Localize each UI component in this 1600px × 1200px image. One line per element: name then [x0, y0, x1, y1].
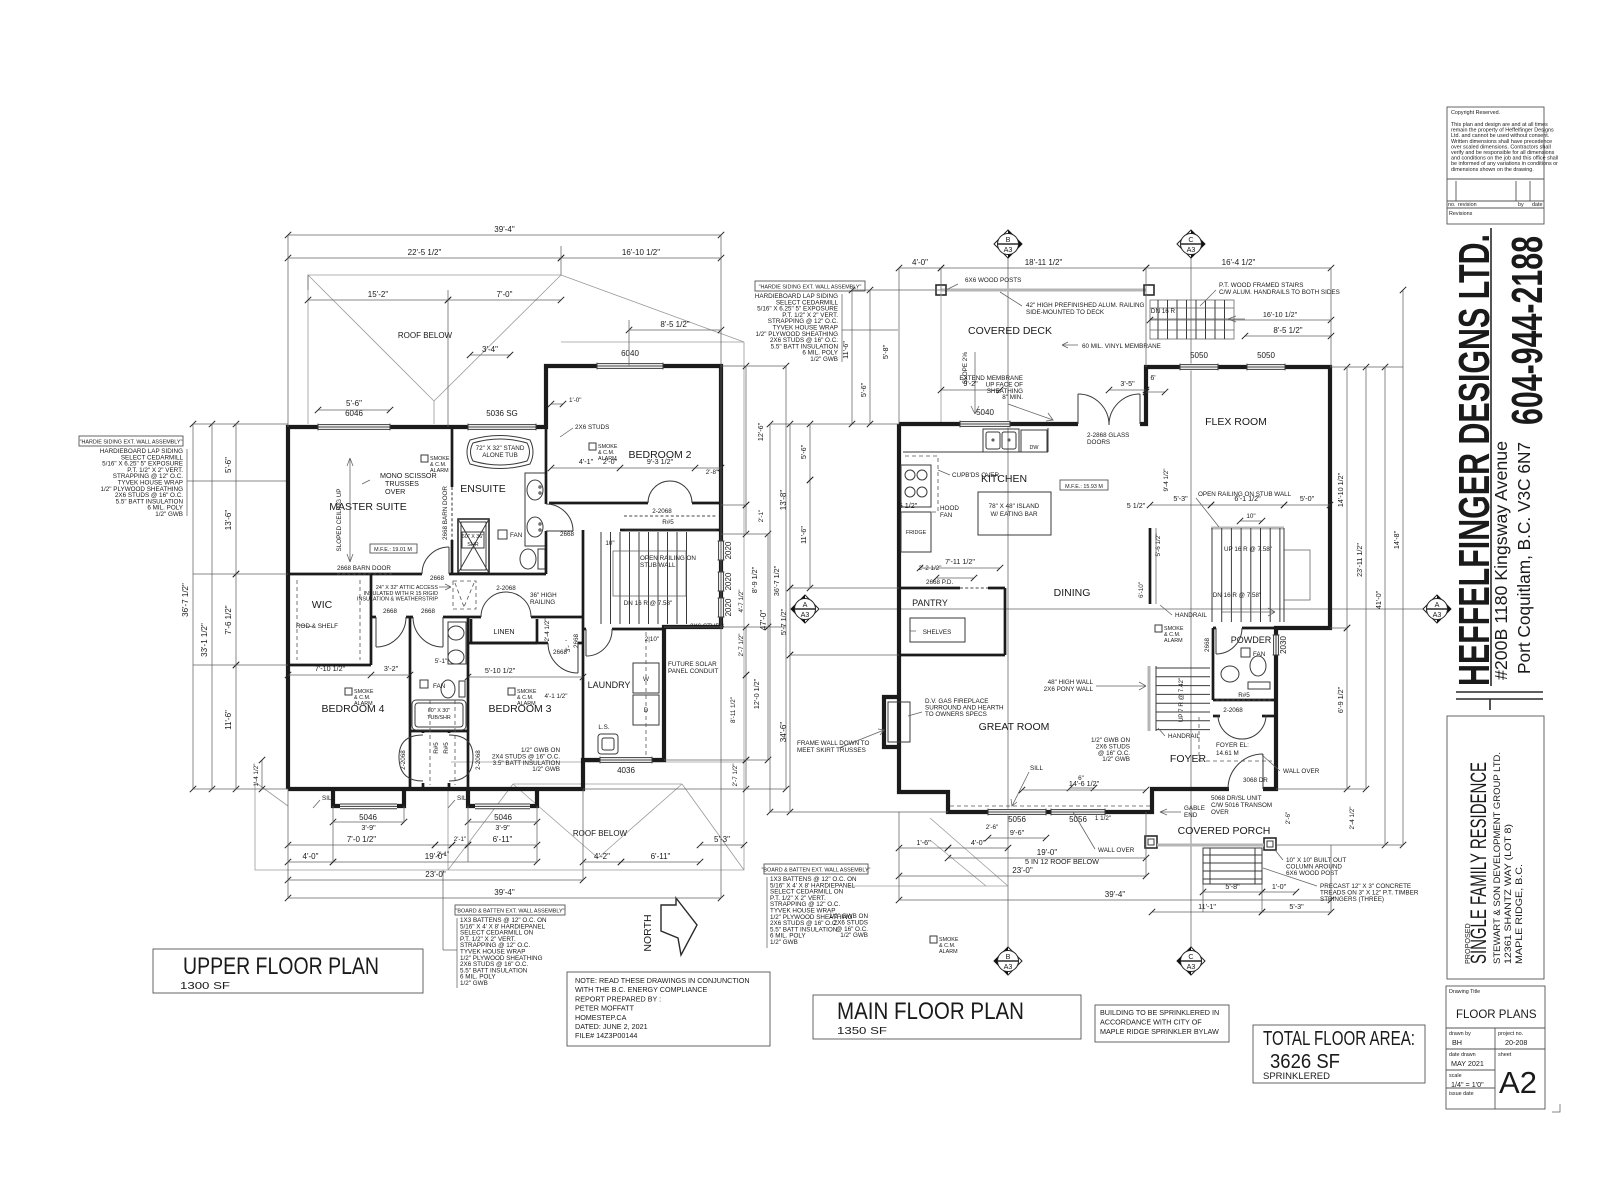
svg-text:5046: 5046 [359, 813, 377, 822]
svg-text:5'-6": 5'-6" [859, 382, 868, 397]
svg-text:LAUNDRY: LAUNDRY [588, 680, 631, 690]
svg-text:LINEN: LINEN [493, 627, 514, 636]
svg-text:6'-9 1/2": 6'-9 1/2" [1336, 686, 1345, 713]
svg-text:#200B 1180 Kingsway Avenue: #200B 1180 Kingsway Avenue [1491, 441, 1511, 680]
svg-text:C/W ALUM. HANDRAILS TO BOTH SI: C/W ALUM. HANDRAILS TO BOTH SIDES [1219, 289, 1340, 296]
svg-text:A3: A3 [1187, 962, 1196, 971]
svg-text:UP 7 R @ 7.42": UP 7 R @ 7.42" [1178, 678, 1185, 723]
svg-text:4'-0": 4'-0" [303, 852, 319, 861]
svg-text:A3: A3 [1187, 245, 1196, 254]
svg-text:1/2" GWB: 1/2" GWB [1102, 756, 1130, 763]
svg-text:2'-1": 2'-1" [758, 510, 765, 523]
svg-text:36'-7 1/2": 36'-7 1/2" [181, 583, 190, 617]
svg-text:39'-4": 39'-4" [1105, 890, 1126, 899]
svg-text:36" HIGH: 36" HIGH [530, 592, 557, 599]
svg-text:WALL OVER: WALL OVER [1098, 847, 1135, 854]
svg-text:FUTURE SOLAR: FUTURE SOLAR [668, 661, 717, 668]
svg-text:3'-4": 3'-4" [482, 345, 498, 354]
svg-text:M.F.E.: 15.93 M: M.F.E.: 15.93 M [1065, 484, 1103, 490]
svg-text:FAN: FAN [1253, 651, 1266, 658]
svg-text:OPEN RAILING ON: OPEN RAILING ON [640, 555, 696, 562]
upper plan: bottom dimension lines [333, 821, 404, 823]
svg-text:13'-6": 13'-6" [224, 510, 233, 531]
svg-text:7'-0": 7'-0" [497, 290, 513, 299]
svg-text:6'-11": 6'-11" [651, 852, 671, 861]
svg-text:2668: 2668 [573, 634, 580, 649]
svg-text:ACCORDANCE WITH CITY OF: ACCORDANCE WITH CITY OF [1100, 1018, 1202, 1027]
svg-text:CUPB'DS OVER: CUPB'DS OVER [952, 472, 999, 479]
svg-text:8'-5 1/2": 8'-5 1/2" [660, 320, 689, 329]
svg-text:2'-4 1/2": 2'-4 1/2" [1349, 806, 1356, 829]
svg-text:SILL: SILL [1030, 765, 1043, 772]
svg-text:2'-6": 2'-6" [1285, 812, 1292, 825]
svg-text:1/2" GWB: 1/2" GWB [810, 356, 838, 363]
upper plan: bedroom3 walls [468, 642, 583, 645]
svg-text:5'-3": 5'-3" [1173, 494, 1188, 503]
svg-text:6': 6' [1150, 373, 1156, 382]
svg-text:date drawn: date drawn [1449, 1052, 1476, 1058]
svg-text:DOORS: DOORS [1087, 439, 1110, 446]
svg-text:2020: 2020 [724, 598, 733, 616]
svg-text:18'-11 1/2": 18'-11 1/2" [1025, 258, 1063, 267]
svg-text:7'-0 1/2": 7'-0 1/2" [347, 835, 376, 844]
svg-text:HANDRAIL: HANDRAIL [1168, 733, 1200, 740]
svg-text:19'-0": 19'-0" [1037, 848, 1058, 857]
svg-text:6'-1 1/2": 6'-1 1/2" [1234, 494, 1261, 503]
svg-text:2-2068: 2-2068 [496, 585, 516, 592]
svg-text:issue date: issue date [1449, 1091, 1474, 1097]
svg-text:2'-4 1/2": 2'-4 1/2" [544, 618, 551, 641]
svg-text:MAIN FLOOR PLAN: MAIN FLOOR PLAN [837, 998, 1024, 1025]
main plan: windows [960, 421, 1010, 428]
svg-text:2668 P.D.: 2668 P.D. [926, 579, 953, 586]
svg-text:23'-0": 23'-0" [1012, 866, 1033, 875]
upper plan: stairs [600, 532, 602, 624]
svg-text:3'-2": 3'-2" [384, 664, 399, 673]
svg-text:16'-10 1/2": 16'-10 1/2" [622, 248, 660, 257]
svg-text:5068 DR/SL UNIT: 5068 DR/SL UNIT [1211, 795, 1262, 802]
svg-text:MAY 2021: MAY 2021 [1451, 1059, 1484, 1068]
svg-text:5'-6": 5'-6" [346, 399, 362, 408]
upper plan: top dimension lines [288, 234, 721, 236]
svg-text:4'-1": 4'-1" [579, 457, 594, 466]
svg-text:SHR: SHR [467, 542, 478, 548]
svg-text:5050: 5050 [1257, 351, 1275, 360]
svg-text:16'-10 1/2": 16'-10 1/2" [1263, 310, 1298, 319]
svg-text:3068 DR: 3068 DR [1243, 777, 1268, 784]
svg-text:DN 16 R @ 7.58": DN 16 R @ 7.58" [1213, 592, 1262, 599]
main plan: misc labels [930, 936, 937, 943]
main plan: stub wall and stairs up [1149, 528, 1152, 604]
svg-text:34'-6": 34'-6" [779, 722, 788, 743]
svg-text:36'-7 1/2": 36'-7 1/2" [772, 565, 781, 596]
svg-text:C: C [1188, 235, 1193, 244]
upper plan: attic access [453, 581, 476, 609]
note: board & batten wall assembly (below upper plan) [455, 905, 565, 915]
svg-text:60 MIL. VINYL MEMBRANE: 60 MIL. VINYL MEMBRANE [1082, 343, 1161, 350]
svg-text:dimensions shown on the drawin: dimensions shown on the drawing. [1451, 167, 1534, 173]
svg-text:by: by [1518, 202, 1524, 208]
svg-text:10": 10" [605, 540, 614, 547]
upper plan: bedroom3 interior dims [468, 676, 583, 678]
svg-text:5056: 5056 [1008, 815, 1026, 824]
svg-text:1/2" GWB: 1/2" GWB [840, 932, 868, 939]
svg-text:7'-11 1/2": 7'-11 1/2" [945, 557, 975, 566]
note: hardie siding wall assembly (upper plan left) [79, 436, 183, 446]
upper plan: linen closet [471, 642, 537, 645]
svg-text:WALL OVER: WALL OVER [1283, 768, 1320, 775]
svg-text:W/ EATING BAR: W/ EATING BAR [990, 511, 1038, 518]
svg-text:2'-6": 2'-6" [986, 824, 999, 831]
svg-text:SHELVES: SHELVES [923, 629, 952, 636]
svg-text:2-2068: 2-2068 [400, 750, 407, 770]
svg-text:6X6 WOOD POST: 6X6 WOOD POST [1286, 870, 1338, 877]
svg-text:4'-0": 4'-0" [971, 838, 986, 847]
svg-text:72" X 32" STAND: 72" X 32" STAND [476, 445, 525, 452]
title block: revisions table [1447, 178, 1544, 180]
main plan: exterior walls [899, 367, 1330, 789]
svg-text:TO OWNERS SPECS: TO OWNERS SPECS [925, 711, 987, 718]
svg-text:42" HIGH PREFINISHED ALUM. RAI: 42" HIGH PREFINISHED ALUM. RAILING [1026, 302, 1145, 309]
svg-text:14.61 M: 14.61 M [1216, 750, 1239, 757]
svg-text:Copyright Reserved.: Copyright Reserved. [1451, 110, 1500, 116]
svg-text:2668: 2668 [421, 608, 436, 615]
upper plan: bay window bump-outs [333, 789, 404, 806]
section marker C bottom [1177, 947, 1205, 975]
svg-text:5'-0": 5'-0" [1300, 494, 1315, 503]
svg-text:R#5: R#5 [443, 742, 450, 754]
svg-text:1'-0": 1'-0" [569, 397, 582, 404]
svg-text:C/W 5016 TRANSOM: C/W 5016 TRANSOM [1211, 802, 1272, 809]
svg-text:2020: 2020 [724, 572, 733, 590]
upper plan: laundry [583, 628, 664, 631]
svg-text:9'-3 1/2": 9'-3 1/2" [647, 457, 674, 466]
svg-text:DN 16 R: DN 16 R [1151, 308, 1176, 315]
main plan: interior small dims [1150, 504, 1211, 506]
main plan: right dimension lines [1346, 367, 1348, 628]
svg-text:ALARM: ALARM [354, 701, 373, 707]
svg-text:ROD & SHELF: ROD & SHELF [296, 623, 338, 630]
svg-text:UPPER FLOOR PLAN: UPPER FLOOR PLAN [183, 953, 379, 980]
svg-text:HANDRAIL: HANDRAIL [1175, 612, 1207, 619]
sheet corner mark [1552, 1104, 1560, 1112]
svg-text:DINING: DINING [1054, 587, 1091, 599]
upper plan: left dimension lines [192, 424, 194, 789]
svg-text:9'-2": 9'-2" [963, 379, 978, 388]
main plan: section line A-A [820, 608, 1430, 610]
svg-text:6X6 WOOD POSTS: 6X6 WOOD POSTS [965, 277, 1021, 284]
svg-text:2668: 2668 [1204, 638, 1211, 653]
main plan: section line C [1190, 254, 1192, 952]
svg-text:ROOF BELOW: ROOF BELOW [573, 829, 628, 838]
svg-text:8'-11 1/2": 8'-11 1/2" [730, 697, 737, 723]
upper plan: windows [318, 424, 390, 431]
section marker B top [994, 230, 1022, 258]
main plan: section line B [1007, 254, 1009, 952]
svg-text:ALARM: ALARM [1164, 638, 1183, 644]
svg-text:3'-9": 3'-9" [495, 823, 510, 832]
upper floor plan title box [153, 949, 423, 993]
svg-text:22'-5 1/2": 22'-5 1/2" [408, 248, 442, 257]
svg-text:4'-2": 4'-2" [594, 852, 610, 861]
svg-text:2-2868 GLASS: 2-2868 GLASS [1087, 432, 1129, 439]
svg-text:5'-10 1/2": 5'-10 1/2" [485, 666, 516, 675]
svg-text:SLOPED CEILING UP: SLOPED CEILING UP [336, 489, 343, 552]
svg-text:2'-0": 2'-0" [603, 457, 618, 466]
svg-text:2030: 2030 [1279, 636, 1288, 654]
svg-text:A3: A3 [801, 610, 810, 619]
svg-text:NOTE: READ THESE DRAWINGS IN: NOTE: READ THESE DRAWINGS IN CONJUNCTION [575, 976, 750, 985]
svg-text:5'-6 1/2": 5'-6 1/2" [1155, 533, 1162, 556]
svg-text:60" X 36": 60" X 36" [462, 534, 484, 540]
svg-text:DATED: JUNE 2, 2021: DATED: JUNE 2, 2021 [575, 1022, 648, 1031]
svg-text:COVERED PORCH: COVERED PORCH [1178, 825, 1271, 837]
main plan: roof below lines bottom-left [930, 818, 1008, 886]
svg-text:1/2" GWB: 1/2" GWB [460, 980, 488, 987]
upper plan: bedroom4 interior dims [288, 674, 410, 676]
svg-text:GABLE: GABLE [1184, 805, 1205, 812]
svg-text:FLEX ROOM: FLEX ROOM [1205, 416, 1267, 428]
svg-text:2020: 2020 [724, 541, 733, 559]
svg-text:UP 16 R @ 7.58": UP 16 R @ 7.58" [1224, 546, 1272, 553]
main plan: pantry [899, 587, 960, 590]
svg-text:604-944-2188: 604-944-2188 [1503, 236, 1552, 425]
svg-text:no.: no. [1448, 202, 1456, 208]
svg-text:1300 SF: 1300 SF [180, 980, 230, 992]
svg-text:2'-7 1/2": 2'-7 1/2" [738, 633, 745, 656]
svg-text:PETER MOFFATT: PETER MOFFATT [575, 1004, 635, 1013]
svg-text:2668: 2668 [560, 531, 575, 538]
svg-text:3626 SF: 3626 SF [1270, 1051, 1340, 1073]
svg-text:47'-0": 47'-0" [759, 610, 768, 631]
title block: project box [1447, 716, 1544, 979]
svg-text:14'-10 1/2": 14'-10 1/2" [1336, 472, 1345, 507]
svg-text:OVER: OVER [1211, 809, 1229, 816]
svg-text:DW: DW [1030, 445, 1040, 451]
svg-text:48" HIGH WALL: 48" HIGH WALL [1048, 679, 1094, 686]
section marker C top [1177, 230, 1205, 258]
svg-text:P.T. WOOD FRAMED STAIRS: P.T. WOOD FRAMED STAIRS [1219, 282, 1303, 289]
svg-text:2668 BARN DOOR: 2668 BARN DOOR [442, 486, 449, 540]
svg-text:C: C [1188, 952, 1193, 961]
svg-text:"HARDIE SIDING EXT. WALL ASSEM: "HARDIE SIDING EXT. WALL ASSEMBLY" [80, 440, 183, 446]
svg-text:6'-11": 6'-11" [493, 835, 513, 844]
svg-text:project no.: project no. [1498, 1031, 1523, 1037]
svg-text:6040: 6040 [621, 349, 639, 358]
svg-text:14'-6 1/2": 14'-6 1/2" [1069, 779, 1100, 788]
svg-text:Revisions: Revisions [1449, 211, 1473, 217]
svg-text:"BOARD & BATTEN EXT. WALL ASSE: "BOARD & BATTEN EXT. WALL ASSEMBLY" [762, 868, 871, 874]
main plan: top dimension lines [899, 267, 941, 269]
svg-text:16'-4 1/2": 16'-4 1/2" [1222, 258, 1256, 267]
svg-text:Drawing Title: Drawing Title [1449, 989, 1480, 995]
svg-text:ENSUITE: ENSUITE [460, 483, 506, 495]
svg-text:6'-10": 6'-10" [1138, 582, 1145, 598]
svg-text:1 1/2": 1 1/2" [1095, 815, 1111, 822]
svg-text:4'-0": 4'-0" [912, 258, 928, 267]
main plan: pony wall and stairs down [1148, 666, 1151, 731]
svg-text:1'-4 1/2": 1'-4 1/2" [253, 763, 260, 786]
svg-text:7'-6 1/2": 7'-6 1/2" [224, 605, 233, 634]
svg-text:19'-0": 19'-0" [425, 852, 446, 861]
svg-text:FLOOR PLANS: FLOOR PLANS [1456, 1009, 1537, 1021]
svg-text:Port Coquitlam, B.C. V3C 6N7: Port Coquitlam, B.C. V3C 6N7 [1514, 442, 1534, 674]
svg-text:12'-0 1/2": 12'-0 1/2" [752, 678, 761, 709]
upper plan: bedroom3/4 closet doors [409, 731, 412, 789]
svg-text:5 1/2": 5 1/2" [899, 501, 918, 510]
svg-text:39'-4": 39'-4" [494, 225, 515, 234]
svg-text:5 1/2": 5 1/2" [1127, 501, 1146, 510]
svg-text:R#5: R#5 [662, 519, 674, 526]
svg-text:SILL: SILL [457, 795, 470, 802]
svg-text:OVER: OVER [385, 487, 405, 496]
svg-text:FRAME WALL DOWN TO: FRAME WALL DOWN TO [797, 740, 870, 747]
note: board & batten wall assembly (below main plan) [764, 864, 868, 874]
svg-text:PANEL CONDUIT: PANEL CONDUIT [668, 668, 719, 675]
svg-text:20-208: 20-208 [1505, 1038, 1527, 1047]
svg-text:5050: 5050 [1190, 351, 1208, 360]
svg-text:11'-1": 11'-1" [1198, 902, 1216, 911]
svg-text:MAPLE RIDGE, B.C.: MAPLE RIDGE, B.C. [1514, 864, 1524, 964]
svg-text:A: A [1435, 600, 1440, 609]
svg-text:B: B [1006, 235, 1011, 244]
upper plan: ensuite door to landing [544, 504, 549, 531]
svg-text:5'-6": 5'-6" [224, 457, 233, 473]
svg-text:NORTH: NORTH [642, 914, 654, 951]
svg-text:ALARM: ALARM [517, 701, 536, 707]
svg-text:"BOARD & BATTEN EXT. WALL ASSE: "BOARD & BATTEN EXT. WALL ASSEMBLY" [456, 909, 565, 915]
svg-text:1/2" GWB: 1/2" GWB [155, 511, 183, 518]
svg-text:ROOF BELOW: ROOF BELOW [398, 331, 453, 340]
svg-text:15'-2": 15'-2" [368, 290, 389, 299]
svg-text:WIC: WIC [312, 599, 333, 611]
svg-text:5'-6": 5'-6" [799, 444, 808, 459]
svg-text:5'-1": 5'-1" [435, 658, 448, 665]
svg-text:2'-8": 2'-8" [706, 469, 719, 476]
svg-text:FOYER: FOYER [1170, 753, 1207, 765]
svg-text:23'-0": 23'-0" [425, 870, 446, 879]
upper plan: ensuite bottom wall [452, 573, 546, 576]
main plan: left dimension lines [769, 424, 771, 812]
title block: drawing title box [1446, 986, 1545, 1109]
svg-text:DN 16 R @ 7.58": DN 16 R @ 7.58" [624, 600, 673, 607]
svg-text:revision: revision [1458, 202, 1477, 208]
svg-text:2-2068: 2-2068 [1223, 707, 1243, 714]
svg-text:FOYER EL:: FOYER EL: [1216, 742, 1249, 749]
main plan: powder room [1212, 628, 1215, 700]
svg-text:END: END [1184, 812, 1198, 819]
main plan: deck stairs (top right) [1150, 300, 1234, 339]
svg-text:5'-3": 5'-3" [714, 835, 730, 844]
svg-text:REPORT PREPARED BY :: REPORT PREPARED BY : [575, 994, 661, 1003]
svg-text:2X6 STUDS: 2X6 STUDS [690, 623, 724, 630]
upper plan: roof below strip (top-right) [561, 275, 744, 342]
svg-text:FAN: FAN [510, 532, 523, 539]
svg-text:5056: 5056 [1069, 815, 1087, 824]
svg-text:drawn by: drawn by [1449, 1031, 1471, 1037]
upper plan: bathroom (middle) [409, 617, 412, 731]
svg-text:8" MIN.: 8" MIN. [1002, 394, 1023, 401]
svg-text:14'-8": 14'-8" [1392, 530, 1401, 549]
svg-text:10": 10" [1246, 513, 1255, 520]
svg-text:"HARDIE SIDING EXT. WALL ASSEM: "HARDIE SIDING EXT. WALL ASSEMBLY" [759, 285, 862, 291]
main plan: bottom dimension lines [899, 847, 948, 849]
svg-text:3'-5": 3'-5" [1120, 379, 1135, 388]
svg-text:33'-1 1/2": 33'-1 1/2" [200, 623, 209, 657]
svg-text:scale: scale [1449, 1073, 1462, 1079]
main plan: covered deck [941, 289, 1146, 292]
svg-text:4036: 4036 [617, 766, 635, 775]
svg-text:8'-9 1/2": 8'-9 1/2" [750, 566, 759, 593]
title block: divider rules [1490, 228, 1492, 686]
svg-text:POWDER: POWDER [1231, 635, 1272, 645]
title block: copyright box [1447, 107, 1544, 224]
svg-text:2668: 2668 [430, 575, 445, 582]
svg-text:date: date [1532, 202, 1543, 208]
svg-text:BUILDING TO BE SPRINKLERED IN: BUILDING TO BE SPRINKLERED IN [1100, 1008, 1219, 1017]
svg-text:WITH THE B.C. ENERGY COMPLIANC: WITH THE B.C. ENERGY COMPLIANCE [575, 985, 708, 994]
svg-text:A2: A2 [1499, 1065, 1537, 1100]
note box: energy compliance [567, 972, 770, 1046]
svg-text:78" X 48" ISLAND: 78" X 48" ISLAND [989, 503, 1040, 510]
svg-text:TUB/SHR: TUB/SHR [427, 715, 451, 721]
svg-text:2X6 PONY WALL: 2X6 PONY WALL [1044, 686, 1094, 693]
main plan: fireplace [884, 697, 899, 747]
svg-text:1/2" GWB: 1/2" GWB [532, 766, 560, 773]
upper plan: ensuite right wall [545, 427, 548, 574]
svg-text:FAN: FAN [940, 512, 953, 519]
svg-text:STUB WALL: STUB WALL [640, 562, 676, 569]
main floor plan title box [813, 995, 1081, 1039]
svg-text:M.F.E.: 19.01 M: M.F.E.: 19.01 M [374, 547, 412, 553]
svg-text:2668: 2668 [553, 649, 568, 656]
section marker B bottom [994, 947, 1022, 975]
svg-text:GREAT ROOM: GREAT ROOM [979, 721, 1050, 733]
sprinkler note box [1095, 1005, 1229, 1042]
svg-text:INSULATION & WEATHERSTRIP: INSULATION & WEATHERSTRIP [357, 597, 438, 603]
svg-text:9'-6": 9'-6" [1010, 828, 1025, 837]
svg-text:4'-7 1/2": 4'-7 1/2" [738, 589, 745, 612]
svg-text:5040: 5040 [976, 408, 994, 417]
svg-text:5036 SG: 5036 SG [486, 409, 518, 418]
svg-text:BH: BH [1452, 1038, 1462, 1047]
svg-text:TOTAL FLOOR AREA:: TOTAL FLOOR AREA: [1263, 1028, 1415, 1050]
svg-text:9'-4 1/2": 9'-4 1/2" [1163, 468, 1170, 491]
svg-text:2668 BARN DOOR: 2668 BARN DOOR [337, 565, 391, 572]
svg-text:B: B [1006, 952, 1011, 961]
svg-text:13'-8": 13'-8" [779, 490, 788, 511]
svg-text:12'-6": 12'-6" [756, 422, 765, 441]
svg-text:41'-0": 41'-0" [1374, 590, 1383, 609]
svg-text:5'-8": 5'-8" [881, 344, 890, 359]
main plan: porch steps [1203, 848, 1262, 884]
svg-text:2X6 STUDS: 2X6 STUDS [575, 424, 609, 431]
svg-text:SPRINKLERED: SPRINKLERED [1263, 1071, 1331, 1081]
svg-text:5'-8": 5'-8" [1225, 882, 1240, 891]
svg-text:ALONE TUB: ALONE TUB [482, 452, 518, 459]
upper plan: roof below (bottom-right) [255, 630, 744, 870]
svg-text:2668: 2668 [383, 608, 398, 615]
svg-text:2'-7 1/2": 2'-7 1/2" [732, 763, 739, 786]
note: hardie siding wall assembly (main plan left) [755, 281, 865, 291]
svg-text:60" X 30": 60" X 30" [428, 708, 450, 714]
svg-text:A3: A3 [1004, 962, 1013, 971]
section marker A right [1423, 595, 1451, 623]
svg-text:1350 SF: 1350 SF [837, 1025, 887, 1037]
upper plan: roof below outline (top-left hip) [308, 275, 561, 424]
upper plan: stair walls [620, 529, 721, 532]
svg-text:L.S.: L.S. [598, 724, 609, 731]
